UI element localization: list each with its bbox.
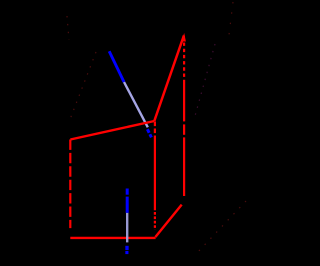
edge top-left (solid) from left corner to junction (70, 121, 154, 140)
wire blue vertical bottom dash 2 (125, 251, 128, 254)
red prism edges (70, 33, 186, 238)
edge center vertical dashed top part (154, 122, 156, 138)
wire faint hidden edge upper-left vertical (67, 16, 69, 40)
edge apex ray (solid diagonal up to arrow) (154, 36, 184, 122)
wire blue vertical visible solid part (126, 197, 129, 213)
vector v (blue diagonal), hidden middle part lavender (109, 51, 151, 137)
edge left vertical dashed (hidden) (69, 140, 71, 229)
edge center vertical solid middle part (154, 138, 156, 211)
wire blue diagonal visible top segment (109, 51, 124, 82)
edge bottom horizontal (70, 237, 155, 239)
edge right vertical dashed (hidden) upper part (183, 43, 185, 82)
edge right vertical solid lower piece (183, 137, 185, 196)
wire faint hidden edge left diagonal (69, 52, 96, 122)
edge center vertical dashed bottom part (154, 212, 156, 230)
wire blue vertical visible top dash (126, 189, 129, 195)
wire blue diagonal hidden (lavender) segment (124, 82, 148, 127)
edge bend diagonal bottom-right (155, 205, 181, 237)
wire blue vertical bottom dash 1 (125, 246, 128, 250)
faint hidden construction edges (speckle trails) (67, 2, 246, 254)
wire blue vertical hidden (lavender) part drawn over bottom edge (126, 213, 128, 243)
wire faint hidden edge right diagonal (195, 44, 215, 116)
wire faint hidden edge top-right (229, 2, 233, 35)
wire blue diagonal visible tip dashes (147, 129, 151, 137)
wire faint hidden edge bottom-right diagonal (196, 201, 246, 254)
vector w (blue bottom vertical) (125, 189, 128, 255)
arrowhead at apex (181, 33, 186, 42)
edge right vertical solid upper piece (183, 81, 185, 121)
edge right vertical solid middle piece (183, 124, 185, 134)
